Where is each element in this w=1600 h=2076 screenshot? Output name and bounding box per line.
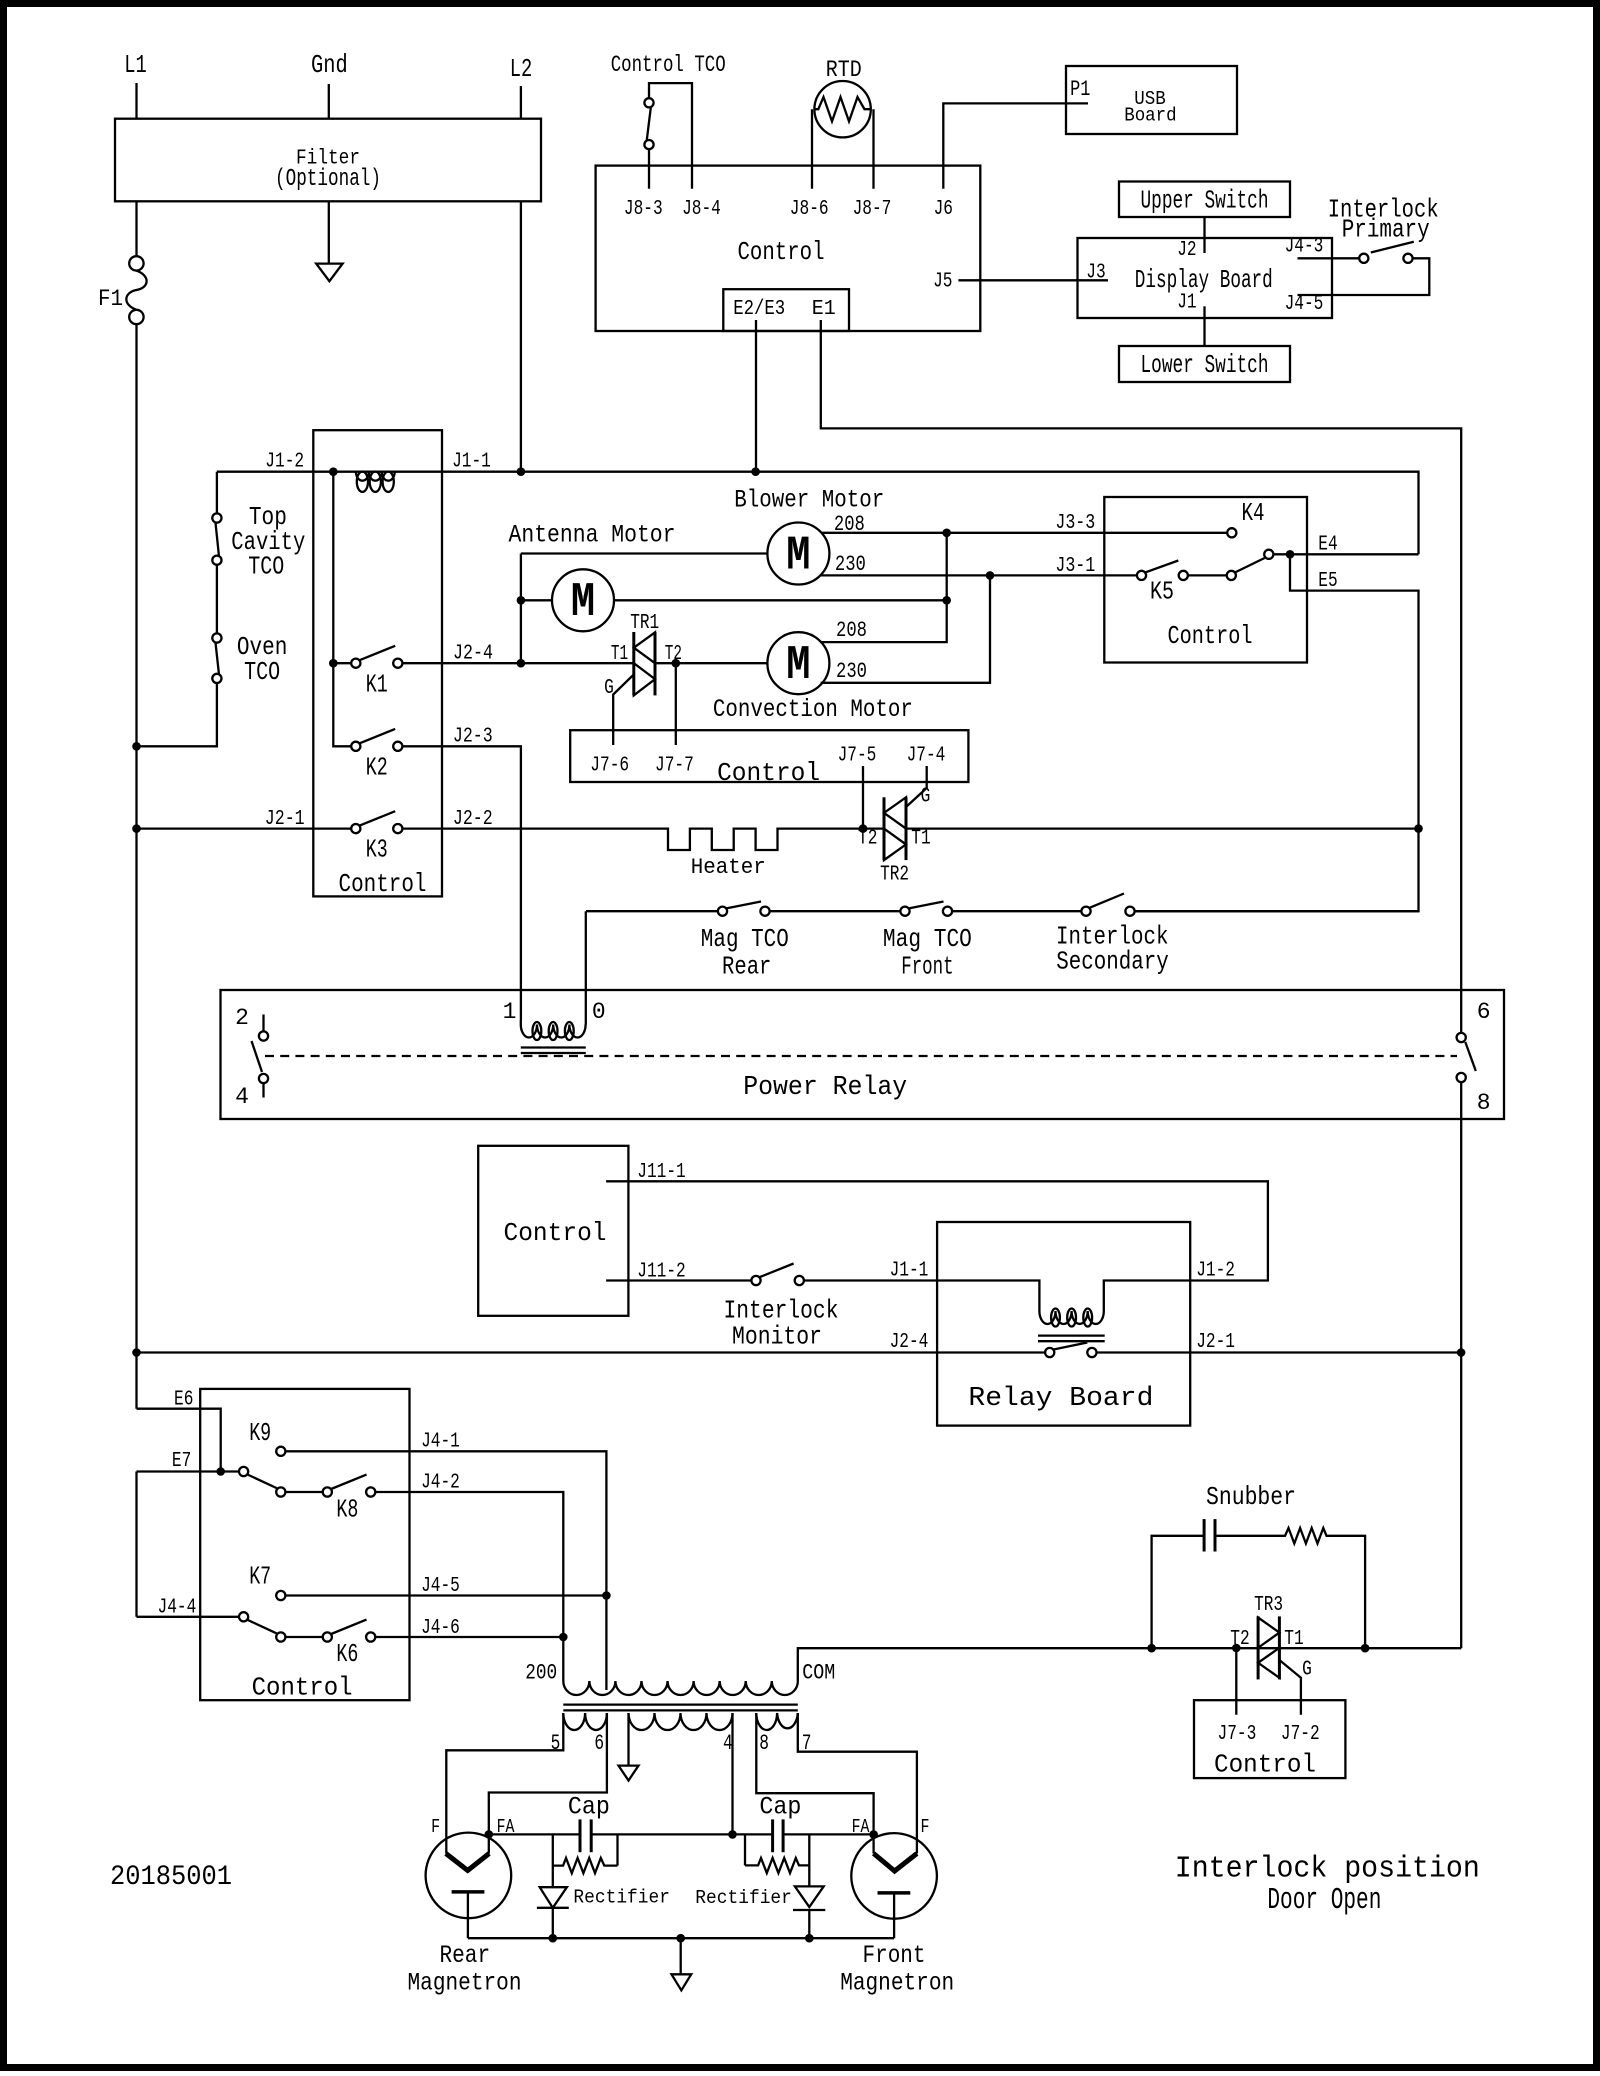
svg-text:J1-2: J1-2 [265,451,304,474]
svg-text:FA: FA [497,1816,515,1838]
svg-text:J7-3: J7-3 [1218,1723,1257,1746]
svg-text:8: 8 [759,1731,769,1756]
svg-text:J2-1: J2-1 [265,808,305,831]
svg-text:F1: F1 [98,286,123,312]
svg-text:Control: Control [252,1672,353,1702]
svg-text:E1: E1 [812,298,836,321]
svg-text:L1: L1 [124,50,147,80]
svg-text:J7-2: J7-2 [1281,1723,1320,1746]
svg-text:Convection Motor: Convection Motor [713,695,913,724]
svg-text:TR3: TR3 [1254,1594,1283,1617]
svg-text:Cap: Cap [759,1793,801,1822]
svg-text:6: 6 [594,1731,604,1756]
svg-text:K6: K6 [336,1639,358,1669]
svg-text:Control: Control [339,869,427,899]
svg-text:(Optional): (Optional) [275,166,381,193]
svg-text:Monitor: Monitor [732,1322,822,1352]
svg-text:TCO: TCO [248,552,284,582]
svg-text:F: F [921,1816,930,1838]
svg-text:FA: FA [852,1816,870,1838]
svg-text:208: 208 [834,512,865,537]
svg-text:J8-3: J8-3 [624,198,663,221]
svg-text:G: G [1302,1659,1312,1682]
svg-text:20185001: 20185001 [110,1862,232,1893]
svg-text:Rectifier: Rectifier [573,1887,670,1909]
svg-text:J1-2: J1-2 [1196,1260,1235,1283]
svg-text:Antenna Motor: Antenna Motor [509,521,676,550]
svg-text:T2: T2 [665,643,682,666]
svg-text:J4-5: J4-5 [421,1575,460,1598]
svg-text:COM: COM [802,1661,835,1686]
svg-text:J4-6: J4-6 [421,1617,460,1640]
svg-text:Power Relay: Power Relay [743,1073,907,1103]
svg-text:0: 0 [592,999,606,1025]
svg-text:K8: K8 [336,1495,358,1525]
svg-text:J4-4: J4-4 [158,1597,197,1620]
svg-text:Control: Control [1214,1750,1316,1780]
svg-text:T1: T1 [911,828,930,851]
svg-text:T2: T2 [858,828,877,851]
svg-text:2: 2 [235,1005,249,1031]
svg-text:J8-4: J8-4 [682,198,721,221]
svg-text:K7: K7 [249,1562,271,1592]
svg-text:J7-4: J7-4 [907,745,946,768]
svg-text:8: 8 [1477,1090,1491,1116]
svg-text:J2-4: J2-4 [890,1331,929,1354]
svg-text:J3-1: J3-1 [1055,555,1095,578]
svg-text:Mag TCO: Mag TCO [883,924,972,954]
svg-text:J2: J2 [1177,239,1196,262]
svg-text:Magnetron: Magnetron [840,1969,954,1998]
svg-text:Heater: Heater [691,855,766,880]
svg-text:200: 200 [525,1661,557,1686]
svg-text:E7: E7 [172,1450,191,1473]
svg-text:J1-1: J1-1 [452,451,491,474]
svg-text:Interlock position: Interlock position [1175,1852,1480,1887]
svg-text:J7-6: J7-6 [590,755,629,778]
svg-text:J11-2: J11-2 [637,1261,686,1284]
svg-text:RTD: RTD [826,57,862,83]
svg-text:K9: K9 [249,1418,271,1448]
svg-text:J7-7: J7-7 [655,755,694,778]
svg-text:TR1: TR1 [630,612,659,635]
svg-text:4: 4 [235,1084,249,1110]
svg-text:Control: Control [738,237,825,267]
svg-text:K4: K4 [1242,498,1265,528]
svg-text:TCO: TCO [244,657,280,687]
svg-text:J4-2: J4-2 [421,1472,460,1495]
svg-text:Control: Control [1168,621,1253,651]
svg-text:J3: J3 [1086,262,1105,285]
svg-text:M: M [786,639,810,693]
svg-text:Blower Motor: Blower Motor [734,485,884,514]
svg-text:Control: Control [717,758,820,788]
svg-text:208: 208 [836,618,867,643]
svg-text:E6: E6 [174,1389,193,1412]
svg-text:Front: Front [863,1941,926,1970]
svg-text:Primary: Primary [1342,214,1430,244]
svg-text:J2-2: J2-2 [453,808,493,831]
svg-text:T2: T2 [1230,1628,1249,1651]
svg-text:Rear: Rear [439,1941,490,1970]
svg-text:E2/E3: E2/E3 [733,298,785,321]
svg-text:J2-1: J2-1 [1196,1331,1235,1354]
svg-text:5: 5 [551,1731,561,1756]
svg-text:J2-4: J2-4 [453,643,493,666]
svg-text:Gnd: Gnd [311,50,348,80]
svg-text:J4-5: J4-5 [1285,293,1324,316]
svg-text:T1: T1 [611,643,628,666]
svg-text:230: 230 [835,552,866,577]
svg-text:Secondary: Secondary [1056,947,1169,977]
svg-text:Rear: Rear [722,951,771,981]
svg-text:Control TCO: Control TCO [611,52,726,78]
svg-text:Rectifier: Rectifier [695,1887,792,1909]
svg-text:6: 6 [1477,999,1491,1025]
svg-text:TR2: TR2 [880,864,909,887]
svg-text:G: G [921,786,931,809]
svg-text:K3: K3 [366,835,388,865]
svg-text:M: M [786,529,810,583]
svg-text:J4-1: J4-1 [421,1431,460,1454]
svg-text:F: F [431,1816,440,1838]
svg-text:Board: Board [1124,104,1176,126]
svg-text:7: 7 [802,1731,812,1756]
svg-text:Snubber: Snubber [1206,1482,1296,1512]
svg-text:J2-3: J2-3 [453,726,493,749]
svg-text:Lower Switch: Lower Switch [1141,350,1269,380]
svg-text:P1: P1 [1070,77,1090,102]
svg-text:K1: K1 [366,670,388,700]
svg-text:J1-1: J1-1 [890,1260,929,1283]
svg-text:Upper Switch: Upper Switch [1141,186,1269,216]
svg-text:T1: T1 [1284,1628,1303,1651]
svg-text:E5: E5 [1318,570,1337,593]
svg-text:J8-6: J8-6 [790,198,829,221]
svg-text:L2: L2 [510,54,533,84]
svg-text:Mag TCO: Mag TCO [701,924,789,954]
svg-text:4: 4 [723,1731,733,1756]
svg-text:J3-3: J3-3 [1055,512,1095,535]
svg-text:J4-3: J4-3 [1285,236,1324,259]
svg-text:Display Board: Display Board [1135,265,1273,295]
svg-text:E4: E4 [1318,534,1337,557]
svg-text:J8-7: J8-7 [853,198,892,221]
svg-text:1: 1 [503,999,517,1025]
svg-text:Control: Control [504,1218,607,1248]
svg-text:J11-1: J11-1 [637,1161,686,1184]
svg-text:G: G [604,677,614,700]
svg-text:230: 230 [836,659,867,684]
svg-text:J5: J5 [933,271,952,294]
svg-text:J1: J1 [1177,292,1196,315]
svg-text:Front: Front [901,951,953,981]
svg-text:K5: K5 [1150,577,1174,607]
svg-text:Magnetron: Magnetron [408,1969,522,1998]
svg-text:Relay Board: Relay Board [968,1384,1153,1414]
svg-text:K2: K2 [366,753,388,783]
svg-text:Cap: Cap [568,1793,610,1822]
svg-text:Door Open: Door Open [1267,1883,1381,1918]
svg-text:J7-5: J7-5 [838,745,877,768]
svg-text:J6: J6 [934,198,953,221]
svg-text:M: M [571,576,595,630]
